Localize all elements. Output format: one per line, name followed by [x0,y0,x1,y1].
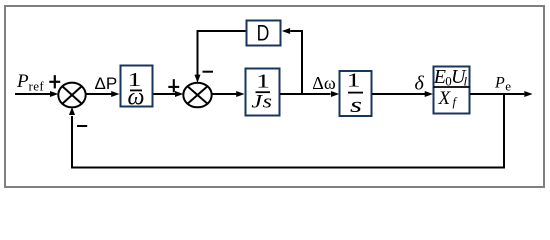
svg-text:ω: ω [128,85,145,111]
node domega label [312,73,336,93]
svg-text:X: X [438,88,452,109]
svg-text:e: e [505,79,511,94]
node delta label [415,73,425,95]
node dP label [95,74,118,93]
sign + at summer S1 input [49,75,60,88]
svg-text:Js: Js [251,91,272,112]
wire: D output down to summer S2 [195,31,246,83]
block 1/w (governor) [121,66,153,111]
sign - at summer S2 (damping feedback) [203,71,214,73]
sign - at summer S1 (feedback) [77,125,87,127]
svg-text:ref: ref [29,79,45,94]
block 1/Js (inertia) [246,69,280,116]
svg-text:E: E [433,66,446,88]
wire: P_ref input to summer S1 [15,91,58,97]
svg-text:P: P [494,75,505,92]
wire: S1 to 1/w block [86,91,120,97]
wire: output P_e [470,91,533,97]
wire: feedback from P_e down, across bottom, up to S1 [69,94,504,168]
wire: 1/s to synchronizing block [372,91,433,97]
wire: 1/Js to 1/s block [280,91,339,97]
wire: 1/w block to summer S2 [154,91,184,97]
svg-text:P: P [16,71,29,92]
block 1/s (integrator) [340,70,372,118]
svg-text:δ: δ [415,73,425,95]
summer S2 [183,83,211,108]
wire: S2 to 1/Js block [212,91,245,97]
node P_e label [494,75,511,94]
wire: domega takeoff up to D input [282,28,302,94]
svg-text:ΔP: ΔP [95,74,118,93]
block E0Ul/Xf (synchronizing power) [433,66,470,114]
summer S1 [58,83,85,108]
svg-text:1: 1 [347,70,361,92]
svg-text:s: s [350,92,362,117]
block D (damping) [247,21,281,47]
svg-text:1: 1 [256,71,270,93]
sign + at summer S2 input [168,79,179,92]
svg-text:Δω: Δω [312,73,336,93]
node P_ref label [16,71,44,94]
svg-text:D: D [257,22,270,46]
